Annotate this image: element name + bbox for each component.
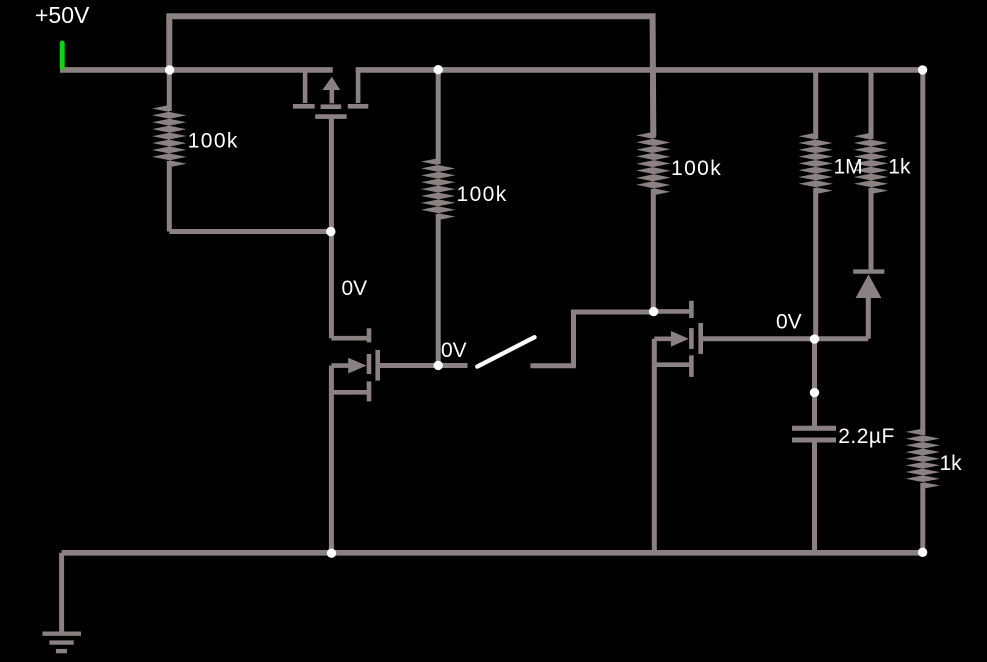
switch SW1 left stub <box>438 363 467 368</box>
node dot Q2 gate <box>434 361 443 370</box>
svg-text:0V: 0V <box>776 310 802 333</box>
svg-text:2.2µF: 2.2µF <box>838 425 895 448</box>
wire node to Q2 drain <box>329 232 334 339</box>
resistor R3 100k <box>651 133 656 138</box>
node dot P-MOSFET gate <box>326 227 335 236</box>
wire top loop <box>169 16 653 136</box>
transistor Q3 n-channel MOSFET right <box>654 301 815 377</box>
resistor R6 1k <box>920 430 925 435</box>
wire Q3 source down to rail <box>652 365 657 553</box>
switch SW1 lever <box>477 337 534 366</box>
wire bottom rail <box>62 550 923 556</box>
svg-text:1k: 1k <box>888 156 911 179</box>
svg-text:0V: 0V <box>441 339 467 362</box>
resistor R1 100k <box>167 70 172 111</box>
svg-text:1k: 1k <box>940 452 963 475</box>
node dot rail left <box>165 65 174 74</box>
resistor R5 1k <box>869 70 874 139</box>
wire R1 bottom to node <box>169 229 330 234</box>
wire P-MOSFET gate to node <box>329 117 334 232</box>
switch SW1 right stub and wire to node <box>530 312 653 366</box>
resistor R4 1M <box>813 70 818 139</box>
svg-text:100k: 100k <box>457 183 508 206</box>
svg-text:+50V: +50V <box>35 2 90 28</box>
node dot rail right <box>918 65 927 74</box>
diode D1 <box>853 272 884 339</box>
wire ground drop <box>59 553 64 634</box>
transistor U1 p-channel MOSFET <box>293 68 368 117</box>
svg-text:100k: 100k <box>188 129 239 152</box>
node dot rail mid <box>434 65 443 74</box>
wire +50V rail right <box>356 67 923 73</box>
node dot rail bottom right <box>918 548 927 557</box>
wire right branch from top rail <box>920 70 925 432</box>
resistor R2 100k <box>421 70 455 366</box>
svg-text:100k: 100k <box>671 157 722 180</box>
capacitor C1 2.2uF <box>792 393 836 553</box>
transistor Q2 n-channel MOSFET left <box>331 328 438 401</box>
wire diode bottom to node <box>815 336 869 341</box>
wire node to capacitor post <box>812 339 817 393</box>
node dot rail bottom left <box>327 549 336 558</box>
wire +50V rail left <box>60 67 333 73</box>
node dot capacitor top <box>810 388 819 397</box>
ground <box>43 634 82 651</box>
node dot Q3 gate <box>810 334 819 343</box>
wire Q2 source down to rail <box>329 392 334 553</box>
node dot Q3 drain <box>649 307 658 316</box>
svg-text:0V: 0V <box>342 277 368 300</box>
svg-text:1M: 1M <box>834 156 863 179</box>
voltage rail terminal +50V <box>60 43 65 68</box>
